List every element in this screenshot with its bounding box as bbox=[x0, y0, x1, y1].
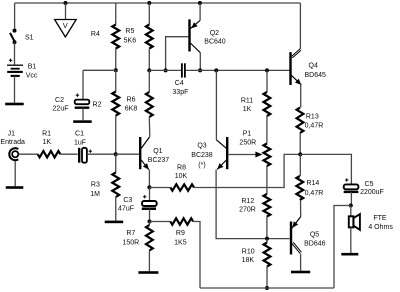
power symbol V bbox=[55, 3, 77, 37]
capacitor C1 bbox=[74, 131, 92, 163]
resistor R12 bbox=[239, 194, 270, 239]
node Vcc-rail junction at Q2 emitter bbox=[198, 1, 202, 5]
resistor R3 bbox=[90, 154, 119, 221]
potentiometer P1 bbox=[239, 130, 270, 166]
node R12/R10/Q5-base junction bbox=[265, 237, 269, 241]
connector J1 bbox=[0, 131, 25, 161]
svg-text:150R: 150R bbox=[122, 240, 139, 247]
resistor R7 bbox=[122, 222, 152, 272]
resistor R4 bbox=[91, 25, 119, 49]
wire J1 to R1 bbox=[19, 153, 38, 155]
resistor R11 bbox=[241, 70, 270, 143]
node Q2 base junction bbox=[164, 68, 168, 72]
svg-text:R2: R2 bbox=[93, 102, 102, 109]
wire Q1 emitter down bbox=[148, 170, 150, 188]
svg-text:BC238: BC238 bbox=[191, 152, 213, 159]
resistor R14 bbox=[296, 154, 323, 200]
svg-text:(*): (*) bbox=[198, 162, 205, 169]
wire top rail to S1 bbox=[14, 3, 16, 30]
wire B1 to ground bbox=[14, 76, 16, 103]
svg-text:FTE: FTE bbox=[373, 215, 387, 222]
svg-text:R10: R10 bbox=[242, 248, 255, 255]
node Q1 emitter / C3 / R8 junction bbox=[147, 185, 151, 189]
svg-text:BD645: BD645 bbox=[304, 72, 326, 79]
wire node to speaker bbox=[350, 206, 352, 217]
ground J1 bbox=[6, 186, 24, 189]
wire Q2 base riser bbox=[166, 37, 189, 71]
wire Q3 emitter down to Q5 base rail bbox=[216, 170, 289, 239]
svg-text:0,47R: 0,47R bbox=[305, 190, 324, 197]
svg-text:Entrada: Entrada bbox=[0, 139, 25, 146]
wire R8 to output node bbox=[194, 154, 300, 187]
wire R4 to node bbox=[115, 49, 117, 71]
wire node to R8 bbox=[149, 187, 170, 189]
svg-text:C4: C4 bbox=[175, 80, 184, 87]
svg-text:R8: R8 bbox=[177, 165, 186, 172]
switch S1 bbox=[10, 29, 34, 45]
svg-text:Q4: Q4 bbox=[309, 63, 318, 70]
svg-text:R14: R14 bbox=[306, 180, 319, 187]
node speaker junction bbox=[349, 204, 353, 208]
svg-text:5K6: 5K6 bbox=[124, 38, 137, 45]
transistor Q3 bbox=[191, 137, 227, 169]
resistor R10 bbox=[242, 239, 271, 288]
wire Q5 collector to ground bbox=[300, 254, 302, 271]
svg-text:10K: 10K bbox=[175, 173, 188, 180]
svg-text:B1: B1 bbox=[28, 64, 37, 71]
node input/R2/R3 junction bbox=[114, 152, 118, 156]
svg-text:270R: 270R bbox=[239, 206, 256, 213]
wire speaker node to bottom rail bbox=[334, 206, 351, 289]
svg-text:1K: 1K bbox=[243, 106, 252, 113]
svg-text:J1: J1 bbox=[8, 131, 16, 138]
svg-text:Vcc: Vcc bbox=[26, 72, 38, 79]
svg-text:R4: R4 bbox=[91, 31, 100, 38]
wire P1 to R12 bbox=[266, 166, 268, 194]
svg-text:1M: 1M bbox=[90, 191, 100, 198]
svg-text:R9: R9 bbox=[176, 230, 185, 237]
wire node to R9 bbox=[150, 221, 171, 223]
wire mid rail right segment bbox=[186, 69, 290, 71]
svg-text:1uF: 1uF bbox=[74, 139, 86, 146]
svg-text:Q5: Q5 bbox=[310, 231, 319, 238]
svg-text:1K: 1K bbox=[43, 139, 52, 146]
node Q3 collector junction bbox=[214, 68, 218, 72]
wire Q3 base to P1 wiper bbox=[228, 152, 263, 158]
wire R6 to Q1 collector bbox=[148, 117, 150, 136]
resistor R9 bbox=[170, 218, 193, 246]
wire rail to R4 bbox=[115, 3, 117, 25]
resistor R6 bbox=[125, 70, 153, 117]
svg-text:47uF: 47uF bbox=[118, 205, 134, 212]
wire Q2 collector to mid rail bbox=[199, 53, 201, 71]
svg-text:V: V bbox=[63, 21, 68, 30]
wire rail to R5 bbox=[148, 3, 150, 25]
svg-text:250R: 250R bbox=[239, 139, 256, 146]
ground Q5 bbox=[291, 271, 310, 274]
svg-text:C3: C3 bbox=[123, 197, 132, 204]
ground B1 bbox=[5, 103, 24, 106]
svg-text:2200uF: 2200uF bbox=[360, 189, 384, 196]
wire C5 to speaker node bbox=[350, 192, 352, 206]
node Vcc-rail junction at V symbol bbox=[64, 1, 68, 5]
wire Vcc top rail bbox=[15, 2, 301, 4]
wire Q2 emitter to rail bbox=[199, 3, 201, 21]
svg-text:R6: R6 bbox=[127, 97, 136, 104]
svg-text:R11: R11 bbox=[241, 97, 253, 104]
ground speaker bbox=[341, 253, 358, 256]
transistor Q1 bbox=[140, 137, 169, 170]
node Vcc-rail junction at R5 bbox=[147, 1, 151, 5]
svg-text:4 Ohms: 4 Ohms bbox=[368, 224, 393, 231]
wire node to Q1 base bbox=[116, 153, 139, 155]
svg-text:BC640: BC640 bbox=[204, 39, 226, 46]
wire mid rail left segment bbox=[149, 69, 181, 71]
ground R7 bbox=[138, 271, 158, 274]
svg-text:1K5: 1K5 bbox=[174, 240, 187, 247]
wire C3 to node bbox=[149, 209, 151, 222]
svg-text:BC237: BC237 bbox=[148, 157, 170, 164]
node R4/R2/C2 junction bbox=[114, 68, 118, 72]
node output junction bbox=[298, 152, 302, 156]
wire bottom rail bbox=[200, 287, 334, 289]
svg-text:Q3: Q3 bbox=[197, 142, 206, 149]
capacitor C3 bbox=[118, 187, 157, 212]
svg-text:Q1: Q1 bbox=[153, 148, 162, 155]
wire C2 branch bbox=[83, 70, 116, 100]
node Q2 collector junction bbox=[198, 68, 202, 72]
svg-text:C5: C5 bbox=[365, 181, 374, 188]
svg-text:22uF: 22uF bbox=[53, 106, 69, 113]
wire J1 to ground bbox=[14, 161, 16, 186]
capacitor C5 bbox=[344, 178, 384, 196]
wire Q3 collector riser bbox=[215, 70, 217, 139]
node R11 top junction bbox=[265, 68, 269, 72]
resistor R1 bbox=[38, 131, 61, 158]
resistor R2 bbox=[93, 70, 120, 154]
svg-text:BD646: BD646 bbox=[304, 240, 326, 247]
node R10 bottom junction bbox=[265, 286, 269, 290]
resistor R5 bbox=[124, 25, 153, 49]
svg-text:R1: R1 bbox=[42, 131, 51, 138]
svg-text:33pF: 33pF bbox=[172, 89, 188, 96]
wire R9 to bottom rail bbox=[193, 222, 200, 289]
svg-text:R5: R5 bbox=[125, 28, 134, 35]
svg-text:18K: 18K bbox=[242, 257, 255, 264]
svg-text:P1: P1 bbox=[243, 130, 252, 137]
wire Q4 collector from rail bbox=[299, 3, 301, 49]
svg-text:0,47R: 0,47R bbox=[305, 122, 324, 129]
node C3/R7/R9 junction bbox=[148, 220, 152, 224]
capacitor C4 bbox=[172, 63, 188, 96]
resistor R13 bbox=[297, 108, 324, 133]
wire R5 to mid rail bbox=[148, 49, 150, 71]
wire output to C5 bbox=[300, 154, 351, 184]
wire R13 to output node bbox=[299, 133, 301, 154]
svg-text:Q2: Q2 bbox=[210, 30, 219, 37]
transistor Q4 bbox=[291, 49, 327, 85]
wire C2 to ground bbox=[82, 108, 84, 121]
ground R3 bbox=[105, 221, 124, 224]
wire R14 to Q5 emitter bbox=[300, 200, 302, 217]
node R5/R6/mid-rail junction bbox=[147, 68, 151, 72]
wire S1 to B1 bbox=[14, 42, 16, 64]
svg-text:S1: S1 bbox=[25, 34, 34, 41]
speaker FTE bbox=[349, 214, 394, 231]
battery B1 bbox=[7, 59, 38, 80]
svg-text:C2: C2 bbox=[55, 97, 64, 104]
svg-text:C1: C1 bbox=[75, 131, 84, 138]
capacitor C2 bbox=[53, 94, 90, 113]
transistor Q2 bbox=[190, 19, 226, 52]
ground C2 bbox=[73, 120, 92, 123]
wire C1 to node bbox=[87, 153, 116, 155]
wire R1 to C1 bbox=[60, 153, 77, 155]
svg-text:R7: R7 bbox=[126, 230, 135, 237]
wire Q4 emitter to R13 bbox=[300, 85, 302, 108]
wire speaker to ground bbox=[350, 227, 352, 253]
transistor Q5 bbox=[291, 217, 326, 255]
svg-text:6K8: 6K8 bbox=[125, 105, 138, 112]
svg-text:R3: R3 bbox=[91, 182, 100, 189]
resistor R8 bbox=[170, 165, 194, 191]
svg-text:R13: R13 bbox=[306, 114, 319, 121]
svg-text:R12: R12 bbox=[241, 198, 254, 205]
